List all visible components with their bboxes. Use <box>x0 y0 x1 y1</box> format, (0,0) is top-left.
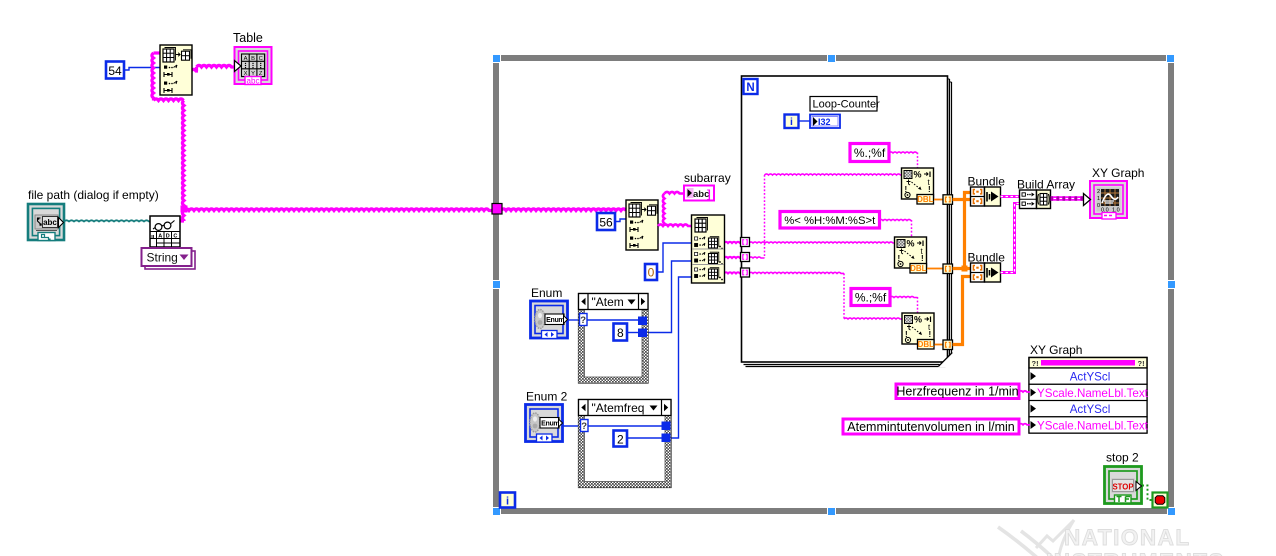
stub 2D wire VI to junction riser <box>179 219 184 222</box>
XY Graph indicator terminal <box>1084 181 1128 219</box>
svg-text:file path (dialog if empty): file path (dialog if empty) <box>28 188 159 202</box>
svg-text:%.;%f: %.;%f <box>854 146 886 160</box>
DBL array wire tunnelA to Bundle1 lower input (orange) <box>953 198 972 201</box>
Table indicator terminal <box>235 47 272 86</box>
svg-text:XY Graph: XY Graph <box>1092 166 1144 180</box>
svg-text:STOP: STOP <box>1112 483 1133 492</box>
for loop count terminal N <box>744 79 758 94</box>
string constant Herzfrequenz in 1/min <box>896 384 1019 399</box>
index array node <box>692 215 725 283</box>
svg-text:"Atemfreq: "Atemfreq <box>592 401 645 415</box>
for loop border (stacked frames) <box>742 76 952 367</box>
String type dropdown <box>142 248 192 266</box>
svg-text:D: D <box>166 233 170 239</box>
DBL wires scan nodes to right tunnels (orange) <box>934 199 943 201</box>
for loop iteration terminal i <box>785 115 799 129</box>
wire selector to tunnel inside case Atem (blue) <box>586 319 640 321</box>
wire Enum 2 to case selector (blue) <box>563 425 581 427</box>
svg-text:I32: I32 <box>818 117 831 127</box>
String type dropdown shadow <box>145 251 195 269</box>
scan from string node 2 <box>895 237 927 273</box>
for loop right tunnels (auto-indexing, DBL) <box>943 195 953 205</box>
svg-text:Table: Table <box>233 31 263 45</box>
string wire tunnel1 to scan node 2 <box>749 242 895 243</box>
format string constant %.;%f (2) <box>851 289 890 306</box>
svg-text:?: ? <box>581 421 587 432</box>
I32 indicator Loop-Counter <box>810 115 840 129</box>
svg-text:1: 1 <box>1097 196 1100 202</box>
svg-text:%< %H:%M:%S>t: %< %H:%M:%S>t <box>784 215 876 227</box>
svg-text:56: 56 <box>599 216 613 230</box>
junction of 2D string array wires <box>181 206 188 213</box>
svg-text:Enum: Enum <box>531 286 562 300</box>
wire format string 1 to scan node 1 <box>889 152 918 153</box>
svg-text:stop 2: stop 2 <box>1106 451 1139 465</box>
while loop border <box>493 55 1174 514</box>
svg-text:A: A <box>244 56 248 62</box>
svg-text:NATIONAL: NATIONAL <box>1064 525 1191 550</box>
svg-text:"Atem: "Atem <box>592 295 624 309</box>
subarray string array indicator <box>684 186 714 201</box>
scan from string node 1 <box>902 168 934 204</box>
svg-text:A: A <box>158 233 162 239</box>
svg-text:%: % <box>914 315 922 325</box>
wire numeric 54 to reshape node (blue) <box>124 68 160 71</box>
2D string array wire from spreadsheet VI up into reshape node 1 <box>152 53 154 101</box>
file path control <box>28 204 64 241</box>
case structure Atemfreq <box>579 400 672 488</box>
reshape array node 1 (top-left) <box>160 45 192 95</box>
while loop condition terminal (stop sign) <box>1153 493 1168 508</box>
svg-text:?!: ?! <box>1138 359 1145 368</box>
svg-text:Enum 2: Enum 2 <box>526 390 568 404</box>
svg-text:0: 0 <box>648 266 655 280</box>
svg-text:0: 0 <box>1097 203 1100 209</box>
while loop iteration terminal i <box>500 493 515 508</box>
cluster wire Bundle2 to Build Array <box>1001 204 1021 273</box>
svg-text:C: C <box>173 233 177 239</box>
svg-text:abc: abc <box>43 218 57 227</box>
numeric constant 2 <box>614 431 628 447</box>
for loop left tunnels (auto-indexing) <box>741 238 750 247</box>
svg-text:2: 2 <box>1097 189 1100 195</box>
svg-text:YScale.NameLbl.Text: YScale.NameLbl.Text <box>1037 419 1149 432</box>
junction DBL array wire (orange) <box>962 266 968 272</box>
svg-text:!: ! <box>928 185 931 194</box>
svg-text:ActYScl: ActYScl <box>1070 403 1111 416</box>
numeric constant 54 <box>106 62 124 79</box>
svg-text:INSTRUMENTS: INSTRUMENTS <box>1046 549 1225 556</box>
svg-text:!: ! <box>921 254 924 263</box>
Enum control <box>531 286 568 339</box>
for loop fold corner <box>938 352 953 368</box>
svg-text:?: ? <box>580 315 586 326</box>
svg-text:DBL: DBL <box>910 264 927 273</box>
DBL array wire tunnelB to Bundle2 and riser to Bundle1 (orange) <box>953 193 972 269</box>
svg-text:Enum: Enum <box>546 317 564 324</box>
svg-text:Build Array: Build Array <box>1017 178 1075 192</box>
svg-text:B: B <box>251 56 255 62</box>
NI watermark eagle logo <box>998 520 1074 556</box>
format string constant %.;%f (1) <box>850 144 889 162</box>
wire selector to tunnel inside case Atemfreq (blue) <box>587 425 663 427</box>
svg-text:C: C <box>259 56 263 62</box>
svg-text:%: % <box>914 170 922 180</box>
case Atemfreq output tunnels (blue squares) <box>662 422 671 431</box>
case structure Atem <box>579 294 649 384</box>
XY Graph property node <box>1029 358 1149 434</box>
svg-text:Herzfrequenz in 1/min: Herzfrequenz in 1/min <box>896 385 1018 399</box>
2D string array wire reshape node 1 to Table <box>191 69 198 71</box>
bundle node 2 <box>971 263 1001 282</box>
build array node <box>1020 190 1051 209</box>
svg-text:!: ! <box>929 330 932 339</box>
string wire Herzfrequenz to property node <box>1019 391 1030 392</box>
svg-text:54: 54 <box>108 64 122 78</box>
case Atem output tunnels (blue squares) <box>638 317 647 326</box>
svg-text:String: String <box>147 251 178 265</box>
case selector terminal ? <box>580 314 588 327</box>
svg-text:?!: ?! <box>1032 359 1039 368</box>
wire stop button to condition terminal (green dotted) <box>1142 486 1152 501</box>
wires numeric into index array node (blue) <box>657 243 692 272</box>
DBL array wire tunnelC to Bundle2 lower input (orange) <box>953 277 972 345</box>
svg-text:Enum: Enum <box>541 421 559 428</box>
reshape array node 2 <box>626 200 658 250</box>
svg-text:DBL: DBL <box>917 195 934 204</box>
svg-text:8: 8 <box>617 326 624 340</box>
wire Enum to case selector (blue) <box>568 319 580 321</box>
svg-text:XY Graph: XY Graph <box>1030 343 1082 357</box>
numeric constant 8 <box>614 324 628 341</box>
label Loop-Counter <box>810 97 880 112</box>
svg-text:N: N <box>746 82 754 94</box>
svg-text:]: ] <box>707 189 711 201</box>
Enum 2 control <box>526 390 568 443</box>
svg-text:2: 2 <box>617 432 624 446</box>
string wire tunnel3 to scan node 3 <box>749 272 844 273</box>
svg-text:subarray: subarray <box>684 171 731 185</box>
svg-text:i: i <box>506 496 509 508</box>
svg-text:Atemmintutenvolumen in l/min: Atemmintutenvolumen in l/min <box>847 420 1014 434</box>
svg-text:%: % <box>907 239 915 249</box>
scan from string node 3 <box>902 313 934 349</box>
cluster wire Bundle1 to Build Array <box>1001 195 1021 198</box>
2D string array tunnel on while loop border <box>492 204 502 215</box>
string wire tunnel2 to scan node 1 <box>749 257 765 258</box>
1D string array wire to subarray indicator <box>658 224 692 226</box>
wire format string 2 to scan node 2 <box>879 219 912 220</box>
selection handles on while loop <box>492 54 1176 516</box>
stop 2 boolean control <box>1105 467 1142 504</box>
wire i to I32 indicator (blue) <box>799 120 810 122</box>
svg-text:%.;%f: %.;%f <box>855 290 887 304</box>
wire 8 to case tunnel (blue) <box>627 332 640 334</box>
cluster array wire Build Array to XY Graph <box>1051 196 1086 201</box>
1D string wires index array to for loop tunnels <box>724 242 741 243</box>
svg-text:Loop-Counter: Loop-Counter <box>813 99 881 111</box>
svg-text:i: i <box>790 116 793 128</box>
svg-text:ActYScl: ActYScl <box>1070 370 1111 383</box>
numeric constant 0 <box>645 264 657 280</box>
wire file path to spreadsheet VI (teal) <box>64 220 150 221</box>
svg-text:abc: abc <box>247 77 260 86</box>
numeric constant 56 <box>597 213 615 230</box>
wire numeric 56 to reshape node 2 (blue) <box>615 219 626 222</box>
wire format string 3 to scan node 3 <box>890 296 918 297</box>
bundle node 1 <box>971 187 1001 206</box>
read from spreadsheet file VI <box>150 216 180 247</box>
string wire Atemmintutenvolumen to property node <box>1019 424 1030 425</box>
string constant Atemmintutenvolumen in l/min <box>843 419 1019 434</box>
svg-text:YScale.NameLbl.Text: YScale.NameLbl.Text <box>1037 387 1149 400</box>
main 2D string array wire to while loop tunnel and reshape node 2 <box>184 209 493 211</box>
wire 2 to case tunnel (blue) <box>627 437 663 439</box>
case selector terminal ? (2) <box>581 420 589 433</box>
svg-text:DBL: DBL <box>918 340 935 349</box>
format string constant %&lt; %H:%M:%S&gt;t <box>780 212 880 229</box>
